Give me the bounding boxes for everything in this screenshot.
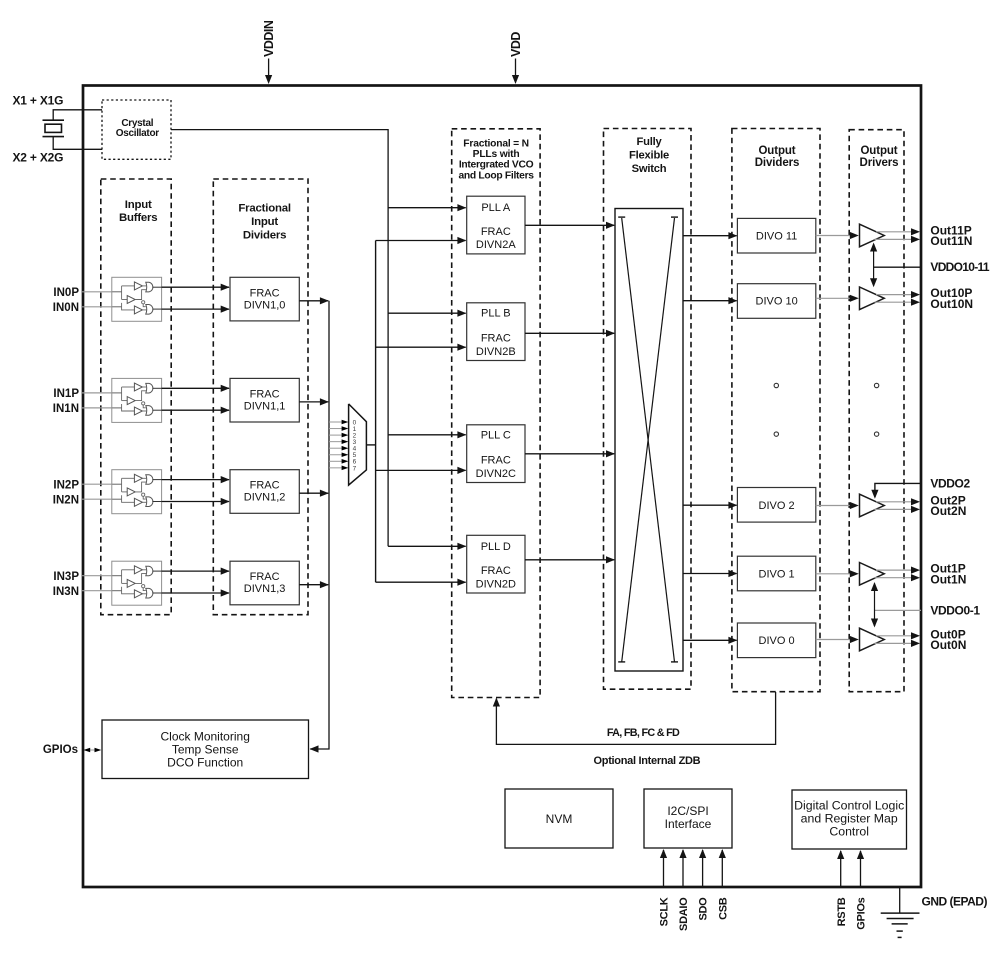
wire buffer3 P output to FRAC DIVN1,3 [162,568,230,575]
wire DIVO 10 to driver [816,295,859,302]
wire XO reference to PLL D [388,543,466,550]
svg-text:DIVN1,1: DIVN1,1 [244,400,286,412]
pin label IN1P [53,388,79,400]
svg-text:Drivers: Drivers [860,157,899,169]
wire PLL B output to switch [525,330,615,337]
wire DIVO 2 to driver [816,502,859,509]
wire mux trunk (feeds FRAC DIVN2 inputs) [375,241,377,583]
svg-text:SDO: SDO [698,897,710,921]
svg-text:DIVO 11: DIVO 11 [756,231,797,243]
svg-text:GPIOs: GPIOs [43,744,78,756]
svg-text:IN3P: IN3P [53,571,79,583]
svg-text:RSTB: RSTB [836,897,848,926]
svg-text:IN1P: IN1P [53,388,79,400]
wire mux trunk to FRAC DIVN2D [376,579,467,586]
wire Out11N to pin [875,236,921,243]
pin label IN2P [53,479,79,491]
wire buffer3 N output to FRAC DIVN1,3 [162,589,230,596]
pin label Out0N [930,638,966,652]
wire FRAC DIVN1,2 output to monitor trunk [299,490,329,497]
divider DIVO 10 [737,284,815,319]
wire input-select trunk down to clock monitoring [310,301,330,753]
svg-text:DIVN2D: DIVN2D [476,578,516,590]
pin label Out1P [930,562,965,576]
wire switch to DIVO 0 [683,637,737,644]
label Optional Internal ZDB [594,755,701,767]
svg-text:DIVN1,3: DIVN1,3 [244,583,286,595]
svg-text:DIVO 2: DIVO 2 [759,500,795,512]
svg-text:PLL A: PLL A [481,202,511,214]
svg-text:7: 7 [353,465,357,472]
divider DIVO 1 [737,556,815,591]
pin label IN0P [53,287,79,299]
svg-text:Dividers: Dividers [243,229,286,241]
pin label Out10P [930,286,972,300]
divider FRAC DIVN1,1 [230,378,299,422]
ground GND (EPAD) [881,888,920,938]
section box Fully Flexible Switch [604,129,692,690]
svg-text:Buffers: Buffers [119,212,157,224]
divider DIVO 2 [737,488,815,523]
svg-text:CSB: CSB [717,897,729,920]
svg-text:IN1N: IN1N [53,403,79,415]
ellipsis dots output dividers [774,383,778,436]
svg-text:FRAC: FRAC [250,287,280,299]
svg-text:Oscillator: Oscillator [116,128,160,139]
wire IN1P into buffer [82,392,122,394]
wire mux trunk to FRAC DIVN2C [376,467,467,474]
wire PLL A output to switch [525,222,615,229]
pin SDO [698,849,710,921]
wire buffer2 N output to FRAC DIVN1,2 [162,498,230,505]
svg-text:NVM: NVM [546,812,573,826]
wire Out2N to pin [875,506,921,513]
svg-text:Switch: Switch [632,163,667,175]
output driver Out2 [860,494,885,517]
svg-text:PLL C: PLL C [481,429,511,441]
svg-text:DIVN2A: DIVN2A [476,239,516,251]
wire buffer0 P output to FRAC DIVN1,0 [162,284,230,291]
section box Fractional Input Dividers [213,179,308,615]
section box Input Buffers [101,179,171,615]
svg-text:DIVN2B: DIVN2B [476,346,516,358]
mux input stub wires 0-7 [329,420,348,470]
svg-text:DIVO 0: DIVO 0 [759,635,795,647]
svg-text:Output: Output [758,145,795,157]
svg-text:IN0P: IN0P [53,287,79,299]
input buffer U1 [112,378,162,422]
svg-text:GND (EPAD): GND (EPAD) [922,895,988,909]
svg-text:Fractional: Fractional [238,203,290,215]
wire PLL D output to switch [525,556,615,563]
svg-text:FRAC: FRAC [481,333,511,345]
svg-text:Dividers: Dividers [755,157,800,169]
input buffer U2 [112,470,162,514]
wire XO reference to PLL A [388,204,466,211]
wire DIVO 0 to driver [816,636,859,643]
svg-text:Input: Input [125,199,152,211]
svg-text:X1 + X1G: X1 + X1G [13,94,64,108]
pin label Out11N [930,234,972,248]
divider DIVO 11 [737,218,815,253]
svg-text:SCLK: SCLK [659,897,671,926]
wire FRAC DIVN1,1 output to monitor trunk [299,398,329,405]
wire buffer0 N output to FRAC DIVN1,0 [162,306,230,313]
svg-text:Out0N: Out0N [930,638,966,652]
svg-text:VDD: VDD [509,32,523,57]
net VDDO0-1 [871,582,980,628]
wire Out1P to pin [876,567,920,574]
svg-text:Control: Control [829,825,869,839]
svg-text:PLL D: PLL D [481,541,511,553]
wire mux trunk to FRAC DIVN2A [376,237,467,244]
ellipsis dots output drivers [874,383,878,436]
block Clock Monitoring / Temp Sense / DCO Function [102,720,309,779]
svg-text:FRAC: FRAC [481,226,511,238]
svg-text:Input: Input [251,216,278,228]
pin SDAIO [678,849,690,931]
wire Out10N to pin [875,299,921,306]
section box Output Drivers [849,130,904,692]
pin label X2 + X2G [13,150,64,164]
wire Out2P to pin [876,498,920,505]
pin label IN3N [53,586,79,598]
wire buffer2 P output to FRAC DIVN1,2 [162,476,230,483]
wire IN3N into buffer [82,590,122,592]
wire X1 to crystal oscillator [53,110,102,120]
pin label Out1N [930,572,966,586]
wire DIVO 1 to driver [816,570,859,577]
svg-text:Flexible: Flexible [629,150,669,162]
wire XO reference to PLL B [388,310,466,317]
output driver Out11 [860,224,885,247]
svg-text:Temp Sense: Temp Sense [172,743,239,757]
svg-text:DIVO 1: DIVO 1 [759,568,795,580]
wire DIVO 11 to driver [816,232,859,239]
output driver Out0 [860,628,885,651]
wire buffer1 N output to FRAC DIVN1,1 [162,407,230,414]
wire IN1N into buffer [82,407,122,409]
pin SCLK [659,849,671,926]
switch matrix [615,209,683,672]
svg-text:IN3N: IN3N [53,586,79,598]
pll PLL B [467,303,525,361]
wire FRAC DIVN1,0 output to monitor trunk [299,297,329,304]
label FA, FB, FC & FD [607,727,680,739]
pin VDD [509,32,523,84]
block I2C/SPI Interface [644,789,732,848]
wire buffer1 P output to FRAC DIVN1,1 [162,385,230,392]
divider DIVO 0 [737,623,815,658]
svg-text:PLLs with: PLLs with [473,149,520,160]
wire switch to DIVO 1 [683,570,737,577]
svg-text:VDDO10-11: VDDO10-11 [930,260,989,274]
svg-text:I2C/SPI: I2C/SPI [667,804,708,818]
svg-text:IN2N: IN2N [53,494,79,506]
svg-text:DIVO 10: DIVO 10 [756,296,798,308]
svg-text:Out2N: Out2N [930,504,966,518]
wire switch to DIVO 11 [683,232,737,239]
svg-text:FRAC: FRAC [481,565,511,577]
pll PLL A [467,196,525,254]
wire Out0P to pin [876,632,920,639]
pin label IN2N [53,494,79,506]
wire XO reference to PLL C [388,431,466,438]
mux input select [349,404,367,485]
wire IN2P into buffer [82,483,122,485]
output driver Out1 [860,563,885,586]
svg-text:Clock Monitoring: Clock Monitoring [161,730,250,744]
pin VDDIN [262,20,276,84]
pin label IN1N [53,403,79,415]
pin label GND (EPAD) [922,895,988,909]
pin GPIOs left [43,744,101,756]
svg-text:FA, FB, FC & FD: FA, FB, FC & FD [607,727,680,739]
wire Out0N to pin [875,640,921,647]
wire Out1N to pin [875,574,921,581]
wire IN0P into buffer [82,291,122,293]
svg-text:DCO Function: DCO Function [167,756,243,770]
svg-text:Optional Internal ZDB: Optional Internal ZDB [594,755,701,767]
section box Output Dividers [732,129,820,692]
svg-text:Fractional = N: Fractional = N [463,138,529,149]
svg-text:SDAIO: SDAIO [678,897,690,931]
wire IN0N into buffer [82,306,122,308]
svg-text:Output: Output [860,145,897,157]
output driver Out10 [860,287,885,310]
wire PLL C output to switch [525,450,615,457]
pin label IN0N [53,302,79,314]
svg-text:PLL B: PLL B [481,308,511,320]
crystal oscillator block [102,100,171,159]
pin label X1 + X1G [13,94,64,108]
svg-text:Interface: Interface [665,817,712,831]
block NVM [505,789,613,848]
svg-text:VDDO0-1: VDDO0-1 [930,603,980,617]
net VDDO10-11 [870,243,990,288]
svg-text:DIVN1,2: DIVN1,2 [244,492,286,504]
svg-text:IN2P: IN2P [53,479,79,491]
divider FRAC DIVN1,3 [230,561,299,605]
pin CSB [717,849,729,920]
svg-text:and Loop Filters: and Loop Filters [458,171,534,182]
wire mux trunk to FRAC DIVN2B [376,344,467,351]
wire IN2N into buffer [82,498,122,500]
svg-text:GPIOs: GPIOs [856,897,868,929]
svg-text:Intergrated VCO: Intergrated VCO [459,160,534,171]
pin RSTB [836,850,848,926]
pin label Out11P [930,223,971,237]
svg-text:and Register Map: and Register Map [801,812,898,826]
wire Out11P to pin [876,228,920,235]
svg-text:FRAC: FRAC [250,388,280,400]
input buffer U3 [112,561,162,605]
svg-text:X2 + X2G: X2 + X2G [13,150,64,164]
net VDDO2 [871,476,970,498]
svg-text:DIVN1,0: DIVN1,0 [244,299,286,311]
pin label Out2N [930,504,966,518]
svg-text:FRAC: FRAC [250,480,280,492]
svg-text:Out1N: Out1N [930,572,966,586]
wire crystal oscillator output to XO trunk [171,130,388,547]
wire Out10P to pin [876,291,920,298]
svg-text:VDDO2: VDDO2 [930,476,970,490]
svg-text:Digital Control Logic: Digital Control Logic [794,799,904,813]
divider FRAC DIVN1,0 [230,277,299,321]
wire mux output to PLL trunk [366,444,375,446]
pin GPIOs [856,850,868,930]
svg-text:FRAC: FRAC [481,455,511,467]
divider FRAC DIVN1,2 [230,470,299,514]
svg-text:Fully: Fully [636,136,662,148]
wire optional internal ZDB feedback [493,692,776,744]
wire switch to DIVO 10 [683,297,737,304]
wire IN3P into buffer [82,575,122,577]
svg-text:VDDIN: VDDIN [262,20,276,57]
input buffer U0 [112,277,162,321]
chip outline U1 [83,86,921,888]
svg-text:IN0N: IN0N [53,302,79,314]
pin label IN3P [53,571,79,583]
wire FRAC DIVN1,3 output to monitor trunk [299,581,329,588]
crystal Y1 [43,120,65,136]
pin label Out10N [930,297,973,311]
wire switch to DIVO 2 [683,502,737,509]
pin label Out0P [930,627,965,641]
svg-text:Out10N: Out10N [930,297,973,311]
pll PLL D [467,535,525,593]
svg-text:FRAC: FRAC [250,571,280,583]
block Digital Control Logic and Register Map Control [792,790,907,849]
pin label Out2P [930,493,965,507]
section box Fractional = N PLLs [452,129,540,698]
pll PLL C [467,425,525,483]
svg-text:Out11N: Out11N [930,234,972,248]
svg-text:DIVN2C: DIVN2C [476,468,516,480]
wire X2 to crystal oscillator [53,137,102,150]
